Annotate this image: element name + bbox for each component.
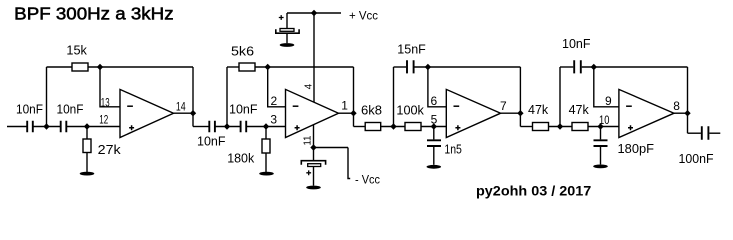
wire feedback3 left to C 15nF <box>394 66 407 68</box>
wire C2 to op-amp U1A pin12 <box>67 126 120 128</box>
wire 1n5 bottom lead <box>433 147 435 165</box>
wire R 47k B to pin10 <box>588 126 619 128</box>
wire feedback2 right vertical <box>353 67 355 127</box>
node pin5 junction <box>431 123 437 129</box>
capacitor C3 10nF plates <box>209 121 215 132</box>
svg-text:180pF: 180pF <box>618 142 655 156</box>
node pin3 junction <box>263 123 269 129</box>
ground 1n5 <box>427 165 442 169</box>
svg-text:180k: 180k <box>227 152 255 166</box>
wire pin13 drop <box>100 67 120 107</box>
svg-text:BPF 300Hz a 3kHz: BPF 300Hz a 3kHz <box>14 4 173 24</box>
wire 180pF bottom lead <box>600 147 602 165</box>
resistor R8 47k <box>572 123 588 131</box>
wire R 5k6 to right vertical <box>255 66 354 68</box>
wire pin6 drop <box>428 67 446 107</box>
node C junction <box>390 123 396 129</box>
svg-text:+ Vcc: + Vcc <box>349 11 378 23</box>
node feedback4 junction <box>591 64 597 70</box>
electrolytic cap +Vcc decoupling <box>276 15 299 33</box>
svg-text:11: 11 <box>303 135 314 145</box>
wire 180k top lead <box>265 127 267 140</box>
wire pin2 drop <box>268 67 286 107</box>
resistor R7 47k <box>533 123 549 131</box>
wire R 47k A to R 47k B <box>549 126 573 128</box>
svg-text:10nF: 10nF <box>197 135 226 149</box>
svg-text:5: 5 <box>431 112 438 126</box>
ground 27k <box>80 172 95 176</box>
wire U1D output <box>674 112 688 114</box>
wire feedback right vertical down <box>192 67 194 127</box>
svg-text:9: 9 <box>605 94 612 108</box>
wire 1n5 top lead <box>433 127 435 140</box>
svg-text:4: 4 <box>304 83 315 89</box>
resistor R5 6k8 <box>365 123 381 131</box>
wire pin9 drop <box>594 67 619 107</box>
svg-text:3: 3 <box>270 112 277 126</box>
node +Vcc junction <box>311 10 317 16</box>
node feedback1 junction <box>97 64 103 70</box>
node feedback3 junction <box>425 64 431 70</box>
node pin11 junction <box>310 144 316 150</box>
svg-text:14: 14 <box>176 100 186 114</box>
node B junction <box>224 123 230 129</box>
capacitor C8 1n5 plates <box>427 140 441 146</box>
wire node D up to feedback4 <box>559 67 561 127</box>
resistor R3 5k6 <box>239 63 255 71</box>
svg-text:12: 12 <box>99 112 108 126</box>
wire C 15nF to right vertical <box>415 66 521 68</box>
wire U1A output <box>174 112 194 114</box>
svg-text:7: 7 <box>500 99 507 113</box>
node pin12 junction <box>84 123 90 129</box>
svg-text:47k: 47k <box>528 103 549 117</box>
node pin7 junction <box>517 110 523 116</box>
wire R 100k to pin5 <box>421 126 446 128</box>
svg-text:27k: 27k <box>98 143 122 157</box>
svg-text:10: 10 <box>599 113 610 127</box>
capacitor C7 100nF plates <box>702 126 709 140</box>
capacitor C1 10nF plates <box>27 121 33 132</box>
wire C 10nF to right vertical <box>582 66 688 68</box>
wire stage2 link <box>193 126 209 128</box>
wire feedback4 left to C 10nF <box>560 66 573 68</box>
svg-text:6k8: 6k8 <box>361 104 382 118</box>
resistor R4 180k <box>262 139 270 153</box>
node pin10 junction <box>597 123 603 129</box>
svg-text:5k6: 5k6 <box>231 45 254 59</box>
wire -Vcc cap bottom lead <box>313 167 315 186</box>
svg-text:- Vcc: - Vcc <box>355 175 380 187</box>
node pin14 junction <box>190 110 196 116</box>
wire C3 to C4 <box>215 126 240 128</box>
wire stage3 in to R 6k8 <box>354 126 366 128</box>
svg-text:10nF: 10nF <box>16 102 43 116</box>
wire pin4 power <box>313 13 315 102</box>
wire +Vcc rail <box>287 12 341 14</box>
svg-text:100nF: 100nF <box>679 152 714 166</box>
svg-text:1n5: 1n5 <box>444 143 462 157</box>
ground 180k <box>259 172 274 176</box>
wire stage4 in to R 47k A <box>520 126 532 128</box>
wire pin11 power <box>313 125 315 148</box>
op-amp U1C <box>446 89 500 137</box>
op-amp U1B <box>286 89 339 137</box>
wire node B up to feedback2 <box>226 67 228 127</box>
svg-text:6: 6 <box>431 94 438 108</box>
svg-text:8: 8 <box>673 99 680 113</box>
capacitor C2 10nF plates <box>61 121 67 132</box>
wire 27k top lead <box>86 127 88 140</box>
wire feedback4 right vertical <box>687 67 689 133</box>
resistor R2 27k <box>83 139 91 153</box>
wire feedback2 left to R 5k6 <box>227 66 239 68</box>
svg-text:100k: 100k <box>396 104 424 118</box>
wire C4 to pin3 <box>247 126 286 128</box>
capacitor C5 15nF plates <box>407 60 414 73</box>
wire node A up to feedback <box>46 67 48 127</box>
wire R 15k to right vertical <box>88 66 193 68</box>
svg-text:15nF: 15nF <box>397 43 426 57</box>
svg-text:47k: 47k <box>569 103 590 117</box>
wire 180pF top lead <box>600 127 602 140</box>
svg-text:10nF: 10nF <box>229 103 258 117</box>
resistor R6 100k <box>405 123 421 131</box>
capacitor C4 10nF plates <box>241 121 247 132</box>
op-amp U1A <box>120 89 174 137</box>
electrolytic cap -Vcc decoupling <box>301 161 325 176</box>
svg-text:10nF: 10nF <box>562 37 591 51</box>
node D junction <box>557 123 563 129</box>
wire node C up to feedback3 <box>393 67 395 127</box>
wire output link to C 100nF <box>688 132 701 134</box>
wire U1B output <box>338 112 354 114</box>
ground 180pF <box>593 165 608 169</box>
node feedback2 junction <box>265 64 271 70</box>
node A junction <box>43 123 49 129</box>
wire C1 to C2 <box>34 126 61 128</box>
wire -Vcc branch <box>314 148 351 179</box>
wire R 6k8 to R 100k <box>381 126 405 128</box>
wire input lead <box>7 126 27 128</box>
wire -Vcc cap top lead <box>313 148 315 161</box>
svg-text:15k: 15k <box>66 44 87 58</box>
svg-text:py2ohh 03 / 2017: py2ohh 03 / 2017 <box>476 183 591 198</box>
svg-text:1: 1 <box>341 98 348 112</box>
capacitor C6 10nF plates <box>574 60 581 73</box>
ground -Vcc cap <box>306 186 321 190</box>
wire output lead <box>709 132 720 134</box>
wire feedback left to R 15k <box>47 66 73 68</box>
wire 27k bottom lead <box>86 153 88 173</box>
svg-text:13: 13 <box>101 95 110 109</box>
node pin1 junction <box>350 110 356 116</box>
node pin8 junction <box>684 110 690 116</box>
wire feedback3 right vertical <box>519 67 521 127</box>
wire U1C output <box>501 112 521 114</box>
wire +Vcc cap top lead <box>286 13 288 29</box>
ground +Vcc cap <box>280 43 295 47</box>
svg-text:10nF: 10nF <box>57 102 84 116</box>
wire +Vcc cap bottom lead <box>286 33 288 43</box>
op-amp U1D <box>619 89 674 137</box>
resistor R1 15k <box>72 63 88 71</box>
svg-text:2: 2 <box>271 94 278 108</box>
capacitor C9 180pF plates <box>594 140 608 146</box>
wire 180k bottom lead <box>265 153 267 172</box>
